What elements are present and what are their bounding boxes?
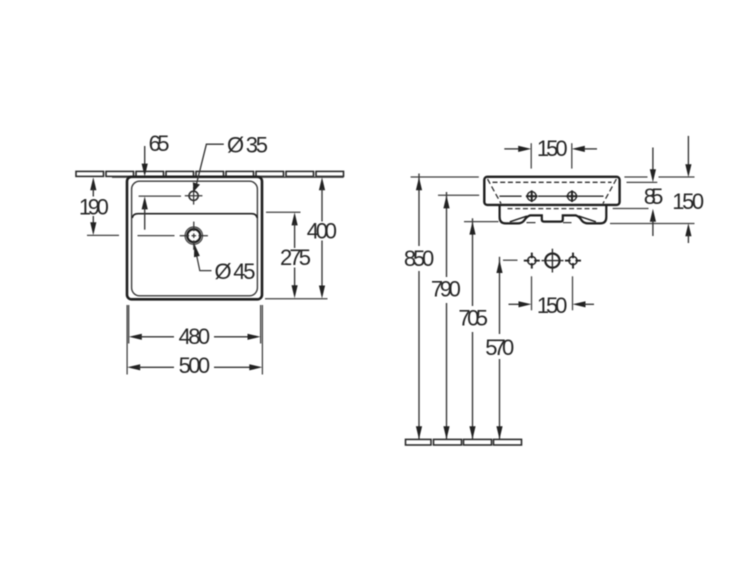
svg-text:850: 850	[404, 246, 434, 271]
svg-text:Ø 45: Ø 45	[215, 259, 256, 284]
svg-text:85: 85	[644, 184, 664, 209]
svg-text:190: 190	[79, 194, 109, 219]
svg-text:150: 150	[672, 189, 704, 214]
svg-text:400: 400	[307, 219, 337, 244]
svg-text:Ø 35: Ø 35	[227, 133, 268, 158]
svg-text:705: 705	[458, 306, 488, 331]
svg-text:790: 790	[431, 276, 461, 301]
svg-text:150: 150	[537, 293, 568, 318]
svg-text:570: 570	[485, 335, 514, 360]
svg-text:150: 150	[537, 136, 568, 161]
svg-text:500: 500	[179, 353, 211, 378]
svg-text:480: 480	[179, 324, 211, 349]
svg-text:65: 65	[149, 131, 170, 156]
svg-text:275: 275	[280, 245, 311, 270]
